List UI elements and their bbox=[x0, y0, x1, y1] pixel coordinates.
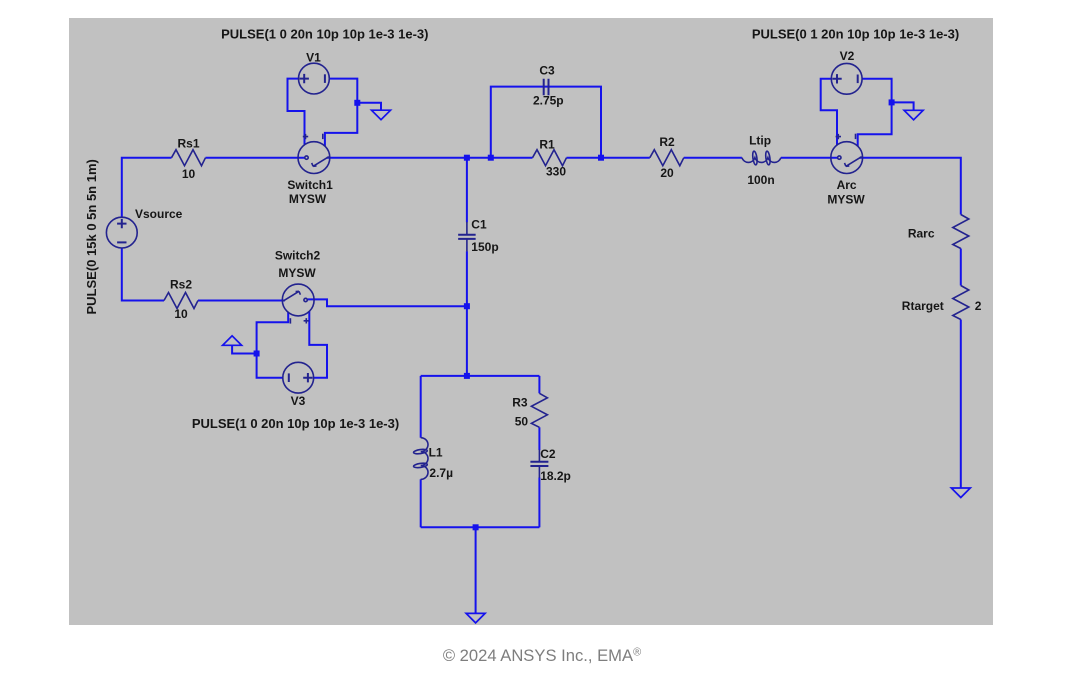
svg-text:V2: V2 bbox=[840, 49, 855, 63]
wire C2 to loop bottom bbox=[538, 478, 540, 528]
svg-text:Switch2: Switch2 bbox=[275, 249, 321, 263]
svg-text:Ltip: Ltip bbox=[749, 134, 771, 148]
Switch2 control pin + label bbox=[304, 318, 309, 323]
wire Rtarget down to ground bbox=[960, 320, 962, 489]
node junction V2/ground bbox=[889, 99, 895, 105]
svg-text:18.2p: 18.2p bbox=[540, 469, 571, 483]
svg-text:100n: 100n bbox=[747, 173, 774, 187]
wire Switch2 lower-right stub to V3 minus bbox=[309, 312, 327, 378]
node D (Switch2 output joins C1 column) bbox=[464, 303, 470, 309]
ground flag near V1 bbox=[372, 110, 391, 120]
svg-text:PULSE(1 0 20n 10p 10p 1e-3 1e-: PULSE(1 0 20n 10p 10p 1e-3 1e-3) bbox=[192, 416, 399, 431]
wire Switch2 lower-left stub to V3 plus bbox=[257, 313, 289, 378]
inductor L1 bbox=[413, 438, 428, 480]
wire Switch1 to node A and node B and R1 bbox=[327, 157, 533, 159]
svg-text:150p: 150p bbox=[471, 240, 498, 254]
capacitor C1 bbox=[458, 222, 476, 251]
node B (C3 left tap) bbox=[488, 155, 494, 161]
svg-text:L1: L1 bbox=[429, 446, 443, 460]
node A (main bus / C1 tap) bbox=[464, 155, 470, 161]
svg-text:Rs1: Rs1 bbox=[177, 137, 199, 151]
svg-text:MYSW: MYSW bbox=[278, 266, 316, 280]
node C (C3 right tap) bbox=[598, 155, 604, 161]
svg-text:MYSW: MYSW bbox=[289, 192, 327, 206]
node F (tank loop bottom / ground tap) bbox=[473, 524, 479, 530]
Switch1 control pin + label bbox=[303, 134, 308, 139]
switch Switch1 bbox=[298, 142, 330, 174]
svg-text:© 2024 ANSYS Inc., EMA®: © 2024 ANSYS Inc., EMA® bbox=[443, 646, 641, 665]
wire tank loop top bbox=[421, 375, 540, 377]
resistor Rs1 bbox=[172, 150, 206, 166]
wire Rs2 to Switch2 bbox=[198, 300, 285, 302]
ground flag right (below Rtarget) bbox=[951, 488, 970, 498]
svg-text:PULSE(0 1 20n 10p 10p 1e-3 1e-: PULSE(0 1 20n 10p 10p 1e-3 1e-3) bbox=[752, 27, 959, 42]
svg-text:Rarc: Rarc bbox=[908, 227, 935, 241]
switch Switch2 bbox=[282, 284, 314, 316]
wire Arc right, corner, down to Rarc bbox=[860, 158, 961, 215]
wire Ltip to Arc bbox=[781, 157, 838, 159]
svg-text:2.7µ: 2.7µ bbox=[429, 466, 453, 480]
svg-text:Rtarget: Rtarget bbox=[902, 299, 944, 313]
wire L1 to loop bottom bbox=[420, 479, 422, 527]
resistor R2 bbox=[650, 150, 684, 166]
wire V1 minus loop (left) to Switch1 control+ bbox=[288, 79, 305, 145]
wire V1 plus loop (right) down to Switch1 control- bbox=[325, 79, 357, 147]
wire loop right down to R3 bbox=[538, 376, 540, 393]
svg-text:Switch1: Switch1 bbox=[287, 178, 333, 192]
Arc control pin + label bbox=[836, 134, 841, 139]
resistor Rs2 bbox=[164, 293, 198, 309]
svg-text:PULSE(1 0 20n 10p 10p 1e-3 1e-: PULSE(1 0 20n 10p 10p 1e-3 1e-3) bbox=[221, 26, 428, 41]
resistor R3 bbox=[531, 393, 547, 427]
wire from Vsource- down and right to Rs2 bbox=[122, 248, 164, 301]
inductor Ltip bbox=[742, 151, 781, 165]
wire R2 to Ltip bbox=[684, 157, 742, 159]
Switch2 control pin - label bbox=[289, 318, 291, 323]
voltage source V2 bbox=[831, 63, 862, 94]
wire node A down to C1 bbox=[466, 158, 468, 223]
ground flag bottom center bbox=[466, 613, 485, 623]
capacitor C2 bbox=[530, 450, 548, 478]
svg-text:C2: C2 bbox=[540, 447, 556, 461]
resistor Rarc bbox=[953, 215, 969, 249]
svg-text:V3: V3 bbox=[291, 394, 306, 408]
wire V1 node to ground stub bbox=[357, 103, 381, 110]
svg-text:R1: R1 bbox=[539, 137, 555, 151]
svg-text:2.75p: 2.75p bbox=[533, 94, 564, 108]
Switch1 control pin - label bbox=[322, 134, 324, 139]
node E (tank loop top) bbox=[464, 373, 470, 379]
wire tank loop bottom bbox=[421, 526, 540, 528]
svg-text:20: 20 bbox=[660, 166, 674, 180]
ground flag near V2 bbox=[904, 110, 923, 120]
wire C1 down through node D to node E bbox=[466, 251, 468, 376]
svg-text:C3: C3 bbox=[539, 64, 555, 78]
wire Rs1 to Switch1 bbox=[206, 157, 305, 159]
wire V2 right loop down to Arc control- bbox=[858, 79, 892, 146]
wire Switch2 output jog to node D bbox=[308, 299, 465, 306]
svg-text:330: 330 bbox=[546, 165, 566, 179]
svg-text:MYSW: MYSW bbox=[827, 192, 865, 206]
svg-text:R2: R2 bbox=[659, 135, 675, 149]
voltage source V3 bbox=[283, 362, 314, 393]
wire node E left down to L1 bbox=[420, 376, 422, 438]
wire Rarc to Rtarget bbox=[960, 249, 962, 286]
node G (V3 ground tap) bbox=[254, 351, 260, 357]
svg-text:Rs2: Rs2 bbox=[170, 278, 192, 292]
resistor Rtarget bbox=[953, 286, 969, 320]
resistor R1 bbox=[533, 150, 567, 166]
wire V2 left loop to Arc control+ bbox=[821, 79, 837, 145]
node junction V1/ground bbox=[354, 100, 360, 106]
capacitor C3 bbox=[544, 79, 549, 96]
wire C3 loop: node B up, across, down to node C bbox=[491, 87, 601, 158]
svg-text:50: 50 bbox=[515, 414, 529, 428]
voltage source V1 bbox=[299, 63, 330, 94]
svg-text:Arc: Arc bbox=[837, 178, 857, 192]
Arc control pin - label bbox=[855, 134, 857, 139]
wire from Vsource+ up and right to Rs1 bbox=[122, 158, 172, 218]
svg-text:V1: V1 bbox=[306, 51, 321, 65]
ground flag near V3 (points up) bbox=[223, 336, 242, 346]
voltage source Vsource bbox=[106, 217, 137, 248]
wire V2 node to ground stub bbox=[892, 102, 914, 110]
svg-text:PULSE(0 15k 0 5n 5n 1m): PULSE(0 15k 0 5n 5n 1m) bbox=[84, 159, 99, 314]
svg-text:R3: R3 bbox=[512, 396, 528, 410]
svg-text:10: 10 bbox=[174, 307, 188, 321]
wire R3 to C2 bbox=[538, 427, 540, 450]
svg-text:C1: C1 bbox=[471, 218, 487, 232]
switch Arc bbox=[831, 142, 863, 174]
wire bottom node down to ground bbox=[475, 527, 477, 613]
schematic canvas background bbox=[69, 18, 993, 625]
wire V3 ground node to up-flag stub bbox=[232, 345, 257, 353]
svg-text:Vsource: Vsource bbox=[135, 207, 183, 221]
wire R1 to node C and R2 bbox=[567, 157, 650, 159]
svg-text:2: 2 bbox=[975, 299, 982, 313]
svg-text:10: 10 bbox=[182, 167, 196, 181]
